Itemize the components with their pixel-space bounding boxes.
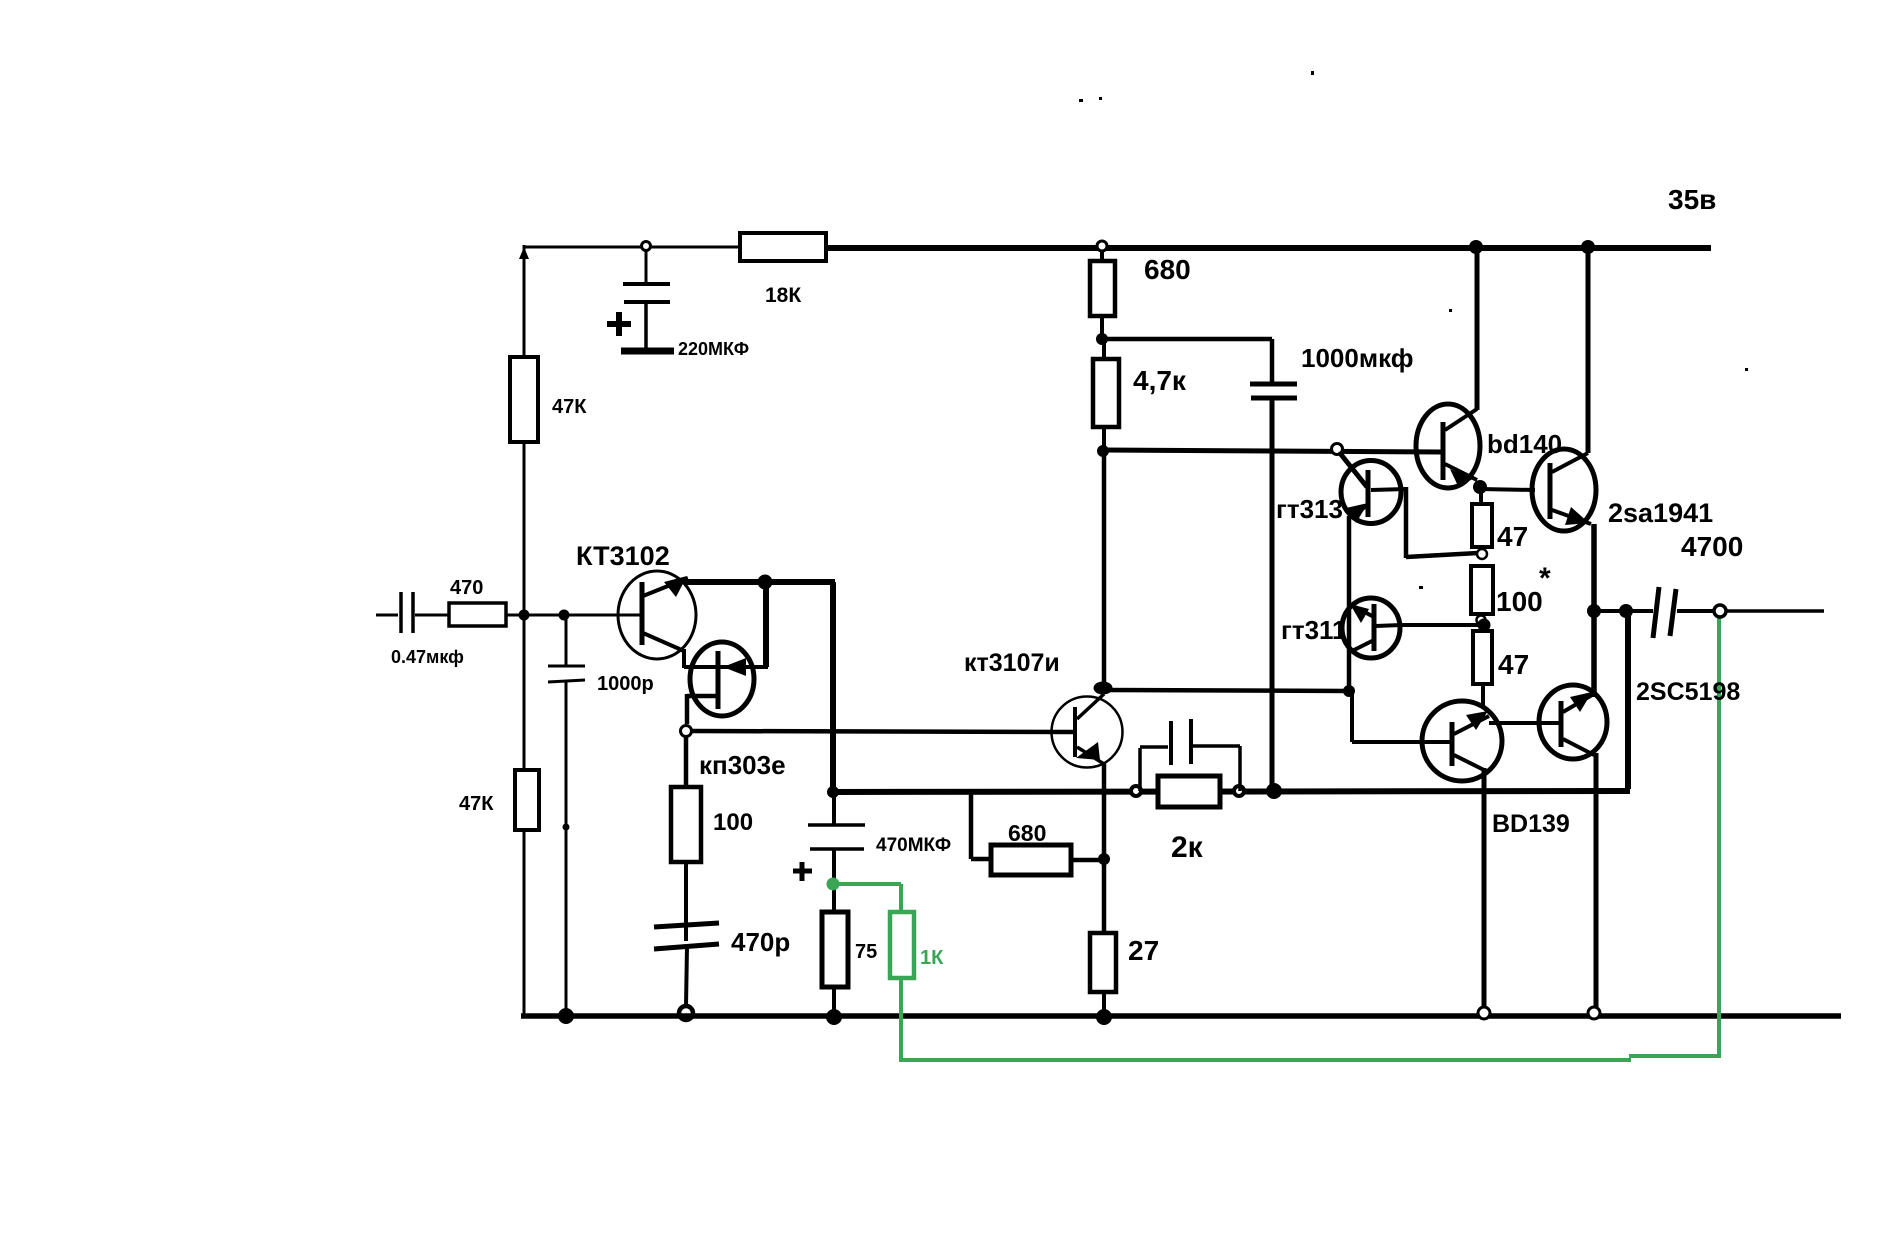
wire: 2SC5198 collector to ground [1594,753,1599,1012]
resistor 470 (input series) [449,577,506,626]
transistor Q2 кп303е (JFET cascode) [684,642,786,780]
wire: BD139 collector to ground [1482,768,1487,1012]
label 35в supply voltage [1668,184,1716,215]
resistor 680 (VAS collector load top) [1090,251,1191,340]
svg-text:470: 470 [450,577,483,599]
capacitor 470МКФ (feedback DC block) [793,792,951,912]
wire: emitter node to гт311 [1103,690,1349,691]
node: input junction with 1000p [559,610,570,621]
wire: junction to 1000мкф top [1102,339,1272,382]
transistor Q1 КТ3102 (input, NPN) [576,541,696,659]
svg-text:47: 47 [1498,649,1529,680]
svg-text:47: 47 [1497,521,1528,552]
wire: input node to KT3102 base [506,614,641,617]
resistor 47K lower (bias divider bottom) [459,770,539,830]
svg-text:гт313: гт313 [1276,494,1343,524]
node: ground open circle under 470p [679,1006,693,1020]
stray speckles [1079,71,1748,589]
capacitor 0.47мкф (input coupling) [376,592,464,667]
svg-text:27: 27 [1128,935,1159,966]
wire: bd140 collector up to rail [1475,247,1480,410]
node: output node dot [1587,604,1601,618]
wire A: JFET source node to кт3107и base [691,731,1073,732]
svg-text:4700: 4700 [1681,531,1743,562]
svg-text:47К: 47К [552,396,587,418]
wire: left vertical from rail down to input node [519,245,529,615]
wire: corner down from (833,582) to feedback line [830,582,836,792]
svg-text:2SC5198: 2SC5198 [1636,678,1740,706]
transistor Q9 2SC5198 (output, NPN) [1539,678,1740,759]
wire: output stub to right [1726,609,1824,613]
svg-text:кт3107и: кт3107и [964,649,1060,677]
wire: кт3107и collector down to 27R [1102,762,1107,934]
green output sense wire [827,615,1722,1062]
wire: +35V supply rail left thin segment [525,246,742,249]
wire: 100R to 470p [684,862,688,941]
wire: гт313 emitter leg down and across to 47/100 junction [1406,487,1478,558]
wire: +35V supply rail thick segment right of 18K [824,245,1711,251]
node: junction with гт311 emitter wire [1478,619,1491,632]
wire: output vertical (2sa1941 em / 2SC5198) [1591,524,1597,697]
svg-text:100: 100 [713,809,753,836]
wire: feedback vertical down [1625,611,1631,789]
capacitor 1000p (input RF filter) [548,615,654,1016]
wire: гт311 emitter to 100/47 junction [1402,623,1484,627]
svg-text:18К: 18К [765,284,801,307]
resistor 75 (feedback ground leg) [822,912,877,1016]
wire: down from source node to 100R [684,737,689,787]
svg-text:47К: 47К [459,793,494,815]
svg-text:*: * [1539,562,1551,595]
svg-text:кп303е: кп303е [699,750,786,780]
svg-text:1000p: 1000p [597,673,654,695]
node: output open circle (speaker tap) [1714,605,1726,617]
node: feedback takeoff dot [1619,604,1633,618]
svg-text:2sa1941: 2sa1941 [1608,498,1713,528]
node: junction гт311 lower lead [1343,685,1355,697]
node: junction 680/4,7к [1096,333,1108,345]
svg-text:гт311: гт311 [1281,615,1347,645]
wire: vertical from drive node down to кт3107и emitter [1102,451,1107,688]
svg-text:4,7к: 4,7к [1133,365,1187,396]
node: open circle 47/100 junction [1477,549,1487,559]
node: open circle right of 2к [1234,786,1244,796]
resistor 680 bottom (кт3107и base leak) [971,790,1104,875]
svg-text:470МКФ: 470МКФ [876,835,951,856]
wire: JFET gate feed vertical [763,582,769,667]
resistor 2к (feedback shunt) [1158,776,1220,864]
capacitor across 2к [1140,719,1240,791]
wire: left vertical continues to ground [523,615,526,1015]
node: junction 4,7к / drive wire [1097,445,1109,457]
resistor 4,7к (VAS load lower) [1093,339,1187,452]
node: ground open circle 2SC5198 [1588,1007,1600,1019]
node: open circle tap to гт313 base [1332,444,1368,488]
node: ground open circle BD139 [1478,1007,1490,1019]
node: bd140 emitter / 47R / 2sa1941 base junction [1473,480,1487,494]
resistor 47 upper (emitter ballast) [1472,492,1528,552]
svg-text:35в: 35в [1668,184,1716,215]
wire: KT3102 upper lead to feedback corner (thick) [684,579,835,585]
svg-text:КТ3102: КТ3102 [576,541,670,571]
wire: drive wire y450 to bd140 base [1103,450,1442,452]
node: junction on that wire feeding JFET gate [758,575,773,590]
node: junction with 680 bottom [1098,853,1110,865]
transistor Q5 гт311 (driver, NPN germanium) [1281,598,1402,658]
node: open circle left of 2к [1131,786,1141,796]
capacitor 470p [654,923,790,1006]
wire: BD139 base L-feed [1352,691,1452,742]
node: кт3107и emitter junction [1094,682,1113,695]
svg-text:BD139: BD139 [1492,810,1570,838]
resistor 47K upper (bias divider top) [510,357,587,442]
transistor Q7 2sa1941 (output, PNP) [1532,449,1713,531]
resistor 100* (bias) [1471,562,1551,621]
wire: 2sa1941 collector up to rail [1586,247,1591,453]
resistor 100 (source load) [671,787,753,862]
svg-text:1К: 1К [920,947,944,969]
node: input junction with 47K string [519,610,530,621]
transistor Q6 bd140 (pre-driver, PNP) [1416,404,1562,488]
node: JFET source node (open circle) [681,726,692,737]
node: rail tap for 680 (open circle) [1097,241,1107,251]
svg-text:2к: 2к [1171,831,1204,864]
capacitor 4700 (output coupling) [1653,531,1743,638]
svg-text:680: 680 [1008,820,1046,846]
node: ground junction 1000p line [558,1008,574,1024]
capacitor 220МКФ (supply decoupling, polarized) [607,250,749,359]
node: feedback corner junction [827,786,839,798]
transistor Q3 кт3107и (VAS, PNP) [964,649,1123,768]
capacitor 1000мкф (bootstrap) [1250,343,1414,790]
resistor 18K (series in supply rail) [740,233,826,307]
svg-text:100: 100 [1496,586,1543,617]
wire: KT3102 emitter drop [682,649,686,668]
wire: BD139 emitter to 2SC5198 base [1489,721,1562,725]
wire: junction to 2sa1941 base [1480,489,1535,490]
resistor 47 lower (emitter ballast) [1473,631,1529,706]
node: rail tap for 220uF (open circle) [642,242,651,251]
wire: output node to 4700 cap [1594,609,1653,613]
resistor 27 (VAS emitter... collector leg) [1090,933,1159,1016]
svg-text:470p: 470p [731,927,790,957]
wire B: feedback line [833,791,1630,792]
node: junction 1000мкф / feedback [1266,783,1282,799]
svg-text:0.47мкф: 0.47мкф [391,647,464,667]
node: ground junction 27R line [1096,1009,1112,1025]
transistor Q8 BD139 (pre-driver, NPN) [1422,701,1570,838]
svg-text:1000мкф: 1000мкф [1301,343,1414,373]
resistor 1К (green, output Zobel) [890,912,944,978]
node: rail junction 2sa1941 [1581,240,1595,254]
wire: гт313 collector down to гт311 [1347,516,1352,691]
node: rail junction bd140 [1469,240,1483,254]
svg-text:220МКФ: 220МКФ [678,339,749,359]
ground rail [521,1013,1841,1019]
transistor Q4 гт313 (driver, PNP germanium) [1276,461,1406,525]
svg-text:75: 75 [855,941,877,963]
svg-text:680: 680 [1144,254,1191,285]
node: open circle 100/47 junction [1477,616,1486,625]
node: ground junction 470МКФ/75 line [826,1009,842,1025]
